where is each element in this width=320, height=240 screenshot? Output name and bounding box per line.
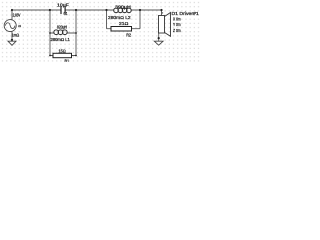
svg-text:2,83V: 2,83V xyxy=(13,12,21,17)
svg-text:390µH: 390µH xyxy=(115,4,131,9)
svg-text:21Ω: 21Ω xyxy=(119,21,128,26)
svg-text:Z 0m: Z 0m xyxy=(173,28,181,33)
svg-text:X 0m: X 0m xyxy=(173,17,181,22)
svg-text:C1: C1 xyxy=(64,11,68,16)
svg-text:1mΩ: 1mΩ xyxy=(12,33,20,38)
svg-text:10µF: 10µF xyxy=(57,2,69,7)
svg-text:15Ω: 15Ω xyxy=(59,49,66,54)
svg-text:280mΩ L1: 280mΩ L1 xyxy=(51,37,71,42)
svg-text:D1 Driver#1: D1 Driver#1 xyxy=(172,11,200,16)
svg-text:280mΩ L2: 280mΩ L2 xyxy=(108,15,131,20)
svg-text:U1: U1 xyxy=(18,24,21,28)
svg-text:R2: R2 xyxy=(126,33,131,38)
svg-text:Y 0m: Y 0m xyxy=(173,22,181,27)
svg-text:R1: R1 xyxy=(65,58,70,62)
svg-text:820µH: 820µH xyxy=(57,25,67,30)
